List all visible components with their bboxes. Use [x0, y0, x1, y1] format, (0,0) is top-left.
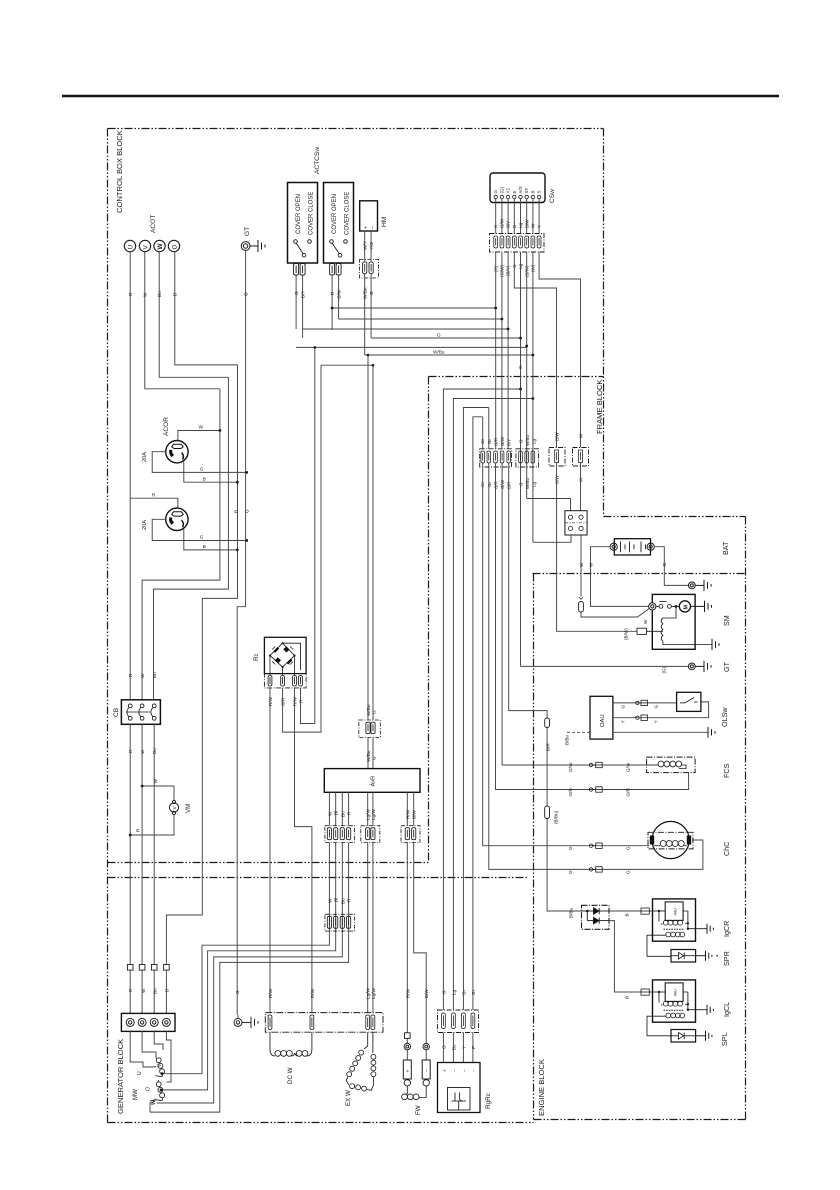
AVR connector top: [359, 720, 381, 738]
wire CSw W jog: [539, 252, 580, 448]
receptacle junction dots: [219, 429, 249, 551]
svg-text:W: W: [153, 779, 158, 784]
connector W 1pin: [573, 448, 589, 467]
DC W winding: [270, 1032, 312, 1056]
frame block border right: [745, 517, 747, 1120]
svg-text:B/W: B/W: [555, 475, 560, 484]
AVR group3 labels: [405, 809, 416, 819]
svg-text:G: G: [200, 535, 204, 540]
svg-text:R/W: R/W: [405, 809, 410, 819]
svg-text:W: W: [327, 811, 332, 816]
svg-text:Y: Y: [537, 225, 542, 228]
wire CSw B/Y down: [507, 252, 509, 329]
svg-text:B: B: [530, 190, 535, 193]
connector B labels lower: [518, 478, 536, 489]
EX W coil bottom: [350, 1084, 355, 1089]
svg-text:G: G: [441, 990, 446, 994]
EX W feed right: [372, 1032, 374, 1053]
wire R from ACOT U: [129, 252, 131, 700]
svg-text:R/W: R/W: [405, 988, 410, 998]
svg-text:G: G: [235, 990, 240, 994]
svg-text:COVER OPEN: COVER OPEN: [296, 194, 302, 234]
wire G from GT: [237, 251, 245, 1016]
receptacle wires: [130, 431, 247, 550]
wire ACTCSw1 G: [295, 275, 297, 329]
svg-text:W: W: [157, 243, 164, 250]
svg-text:G: G: [200, 467, 204, 472]
svg-text:Bl: Bl: [334, 811, 339, 815]
svg-text:G: G: [518, 482, 523, 486]
svg-text:IgCL: IgCL: [722, 1002, 731, 1017]
OAU ground: [708, 727, 715, 738]
bundle labels upper: [441, 989, 476, 995]
svg-text:B/Bu: B/Bu: [569, 907, 574, 918]
generator block border bottom: [108, 1122, 534, 1124]
svg-text:COVER CLOSE: COVER CLOSE: [309, 192, 315, 235]
IgCR internal wiring: [647, 911, 707, 956]
EX W coil right vertical: [371, 1054, 376, 1059]
SPR gap symbol: [671, 952, 696, 959]
OLSw box: [677, 692, 701, 711]
AVR bottom wires group2: [368, 792, 373, 1012]
svg-text:IMU: IMU: [673, 908, 678, 915]
fuse B/Bu: [545, 806, 550, 819]
Rc box: [264, 637, 306, 673]
wire G to GT: [521, 665, 689, 667]
control box block border right lower: [428, 377, 430, 863]
RgRc connector lower labels: [441, 1044, 476, 1050]
Rc bridge: [270, 643, 301, 670]
CSw wire color labels: [493, 218, 541, 228]
svg-text:COVER OPEN: COVER OPEN: [332, 194, 338, 234]
ChC terminals: [650, 836, 654, 845]
svg-text:Gr: Gr: [480, 438, 485, 444]
svg-text:G: G: [568, 870, 573, 874]
svg-text:B/W: B/W: [424, 989, 429, 998]
connector B labels upper: [518, 435, 536, 446]
AVR group2 labels: [366, 808, 377, 820]
SM ground lower: [712, 639, 719, 650]
svg-text:B: B: [624, 996, 629, 999]
svg-text:W/Bu: W/Bu: [366, 704, 371, 716]
receptacle ACOR 1: [166, 441, 188, 463]
wire B branch R2: [184, 529, 238, 550]
wire G/R riser: [283, 365, 321, 732]
svg-text:FRAME BLOCK: FRAME BLOCK: [595, 380, 604, 434]
Rc output wires: [270, 347, 321, 1012]
bullet connectors OAU G: [636, 700, 648, 705]
RgRc connector: [438, 1010, 479, 1033]
branch to bundle w4: [473, 417, 483, 1010]
CSw harness labels: [493, 263, 535, 277]
svg-text:W: W: [199, 425, 204, 430]
svg-text:Y/G: Y/G: [369, 242, 374, 250]
svg-text:IgCR: IgCR: [722, 921, 731, 937]
MW wires from strip: [130, 1031, 171, 1082]
FW coil: [402, 1086, 427, 1100]
branch to bundle w1: [443, 389, 520, 1010]
VM junction dots: [129, 785, 144, 837]
wire CSw B/W down: [532, 252, 534, 543]
svg-text:B: B: [164, 989, 169, 992]
bus wire y347: [296, 346, 527, 348]
svg-text:V: V: [142, 245, 149, 250]
svg-text:W: W: [143, 292, 148, 297]
wire ACTCSw2 R: [331, 275, 333, 330]
wire R feed R2: [130, 498, 178, 508]
switch 2 pins: [330, 264, 342, 276]
svg-text:W: W: [643, 619, 648, 624]
bullet connectors G/W: [589, 762, 602, 767]
svg-text:SPL: SPL: [720, 1032, 729, 1046]
svg-text:G: G: [437, 333, 441, 338]
svg-text:Lg/W: Lg/W: [371, 987, 376, 999]
OAU wires: [566, 702, 709, 732]
svg-text:Gr: Gr: [461, 989, 466, 995]
branch to bundle w3: [463, 408, 488, 1011]
IgCL primary coil: [663, 1001, 682, 1006]
wire W/Bu to AVR connector: [367, 355, 369, 720]
wire R/W via jog: [295, 688, 312, 1013]
CSw lead wires: [496, 199, 539, 234]
svg-text:G/R: G/R: [493, 437, 498, 446]
svg-text:W: W: [140, 673, 145, 678]
svg-text:Gr: Gr: [487, 438, 492, 444]
strip feed wires: [130, 970, 166, 1013]
wire Lg jog up: [533, 535, 571, 542]
svg-text:G: G: [493, 190, 498, 194]
FW circles top: [404, 1043, 429, 1049]
wire R/W to DC W: [269, 688, 271, 1013]
wire B from ACOT O: [175, 252, 238, 365]
wire G loop R1: [152, 452, 247, 473]
IgCL ground: [707, 1005, 713, 1015]
svg-text:OAU: OAU: [600, 714, 606, 727]
switch 1 pins: [294, 264, 306, 276]
wire B/R to connector A: [507, 329, 509, 449]
SM contacts: [656, 602, 679, 609]
AVR group1 labels upper: [327, 811, 351, 817]
wire G/R crossing: [496, 463, 689, 790]
switch box 1: [288, 183, 318, 264]
square terminals: [127, 965, 169, 971]
SM motor circle: [679, 601, 690, 612]
hour meter HM box: [360, 201, 378, 231]
wire HM W/Bu down: [364, 274, 366, 356]
battery body: [614, 539, 650, 555]
FCS box: [647, 757, 696, 773]
svg-text:AvR: AvR: [371, 776, 377, 787]
svg-text:HM: HM: [381, 217, 388, 227]
svg-text:RgRc: RgRc: [485, 1092, 492, 1109]
svg-text:G: G: [294, 291, 299, 295]
bus wire y329: [303, 328, 509, 330]
SM ground upper: [691, 601, 712, 612]
generator harness labels: [235, 987, 429, 999]
svg-text:+: +: [442, 1069, 447, 1072]
SM terminal: [649, 603, 656, 610]
RgRc capacitor symbol: [452, 1093, 467, 1111]
terminal strip box: [121, 1013, 175, 1031]
svg-text:S: S: [537, 190, 542, 193]
svg-text:G: G: [245, 509, 250, 513]
IgCR unit box: [665, 902, 683, 921]
SPL ground: [696, 1031, 712, 1041]
svg-text:G: G: [625, 846, 630, 850]
SM solenoid: [661, 606, 712, 644]
AVR connector g4: [401, 826, 420, 843]
harness labels col1 lower: [128, 988, 169, 994]
wire ACTCSw1 B/Y: [302, 275, 304, 338]
wire R to connector A: [495, 308, 497, 449]
EX W coil left diagonal: [359, 1050, 364, 1055]
wire B receptacle branch: [166, 365, 237, 965]
IgCL core: [664, 1009, 684, 1011]
svg-text:B/W: B/W: [555, 432, 560, 441]
svg-text:SM: SM: [722, 615, 731, 626]
svg-text:G: G: [371, 710, 376, 714]
fuse B/R: [545, 718, 550, 728]
svg-text:R/W: R/W: [268, 988, 273, 998]
FW brush -: [422, 1060, 430, 1079]
bullet connectors OAU Y: [636, 715, 648, 720]
svg-text:Bu: Bu: [152, 988, 157, 994]
connector A labels lower: [480, 479, 511, 489]
control box block border bottom: [108, 862, 429, 864]
VM wires: [130, 786, 174, 835]
svg-text:ENGINE BLOCK: ENGINE BLOCK: [537, 1059, 546, 1116]
CB pole 2: [140, 704, 144, 708]
AVR top wires: [368, 738, 373, 769]
svg-text:GENERATOR BLOCK: GENERATOR BLOCK: [116, 1039, 125, 1114]
svg-text:FCS: FCS: [722, 763, 731, 778]
IgCR secondary coil: [666, 932, 685, 937]
GT terminal: [688, 661, 711, 672]
CSw pins: [494, 195, 541, 198]
generator block border top: [108, 877, 530, 879]
svg-text:Bu: Bu: [340, 811, 345, 817]
svg-text:E: E: [512, 190, 517, 193]
svg-text:G/R: G/R: [568, 788, 573, 797]
IgCR primary coil: [663, 920, 682, 925]
svg-text:ACOT: ACOT: [150, 215, 157, 233]
wire B/Bu to diodes: [547, 819, 581, 912]
SPR ground: [696, 951, 712, 961]
svg-text:−: −: [452, 1069, 457, 1072]
svg-text:GT: GT: [244, 227, 251, 236]
svg-text:20A: 20A: [142, 520, 148, 530]
AVR connector g3: [361, 826, 380, 843]
bus wire y308: [332, 252, 496, 308]
wire Gr2 to connector A: [488, 408, 490, 450]
GT ground symbol: [257, 240, 259, 252]
GT terminal circle: [241, 242, 250, 251]
IgCL unit box: [665, 983, 683, 1002]
bullet connectors G/R: [589, 787, 602, 792]
wire G crossing 2: [489, 463, 703, 870]
wire Gr1 to connector A: [482, 417, 484, 449]
AVR connector g1: [325, 826, 355, 843]
strip pins: [268, 1015, 375, 1030]
wire CSw G/W down: [501, 252, 503, 319]
wire W to connector4: [580, 463, 582, 511]
FW brush +: [403, 1060, 411, 1079]
wire W branch R1: [178, 431, 220, 441]
svg-text:U: U: [137, 1071, 143, 1075]
CB box: [121, 700, 160, 725]
svg-text:Bl: Bl: [334, 898, 339, 902]
CB bar: [126, 711, 150, 713]
svg-text:G/W: G/W: [568, 762, 573, 772]
connector4 4pin: [565, 511, 587, 535]
frame block border step horizontal: [604, 516, 746, 518]
svg-text:B: B: [662, 563, 667, 566]
svg-text:W: W: [589, 562, 594, 567]
wire W from connector4 to SM: [581, 535, 652, 617]
svg-text:B: B: [233, 510, 238, 513]
svg-text:G: G: [243, 292, 248, 296]
Rc diodes: [273, 646, 292, 664]
svg-text:Bu: Bu: [157, 291, 162, 297]
diode box: [582, 905, 610, 929]
svg-text:Lg: Lg: [518, 222, 523, 228]
svg-text:Y2: Y2: [506, 187, 511, 193]
svg-text:G/W: G/W: [500, 436, 505, 446]
svg-text:Lg: Lg: [532, 481, 537, 487]
svg-text:B/W: B/W: [524, 219, 529, 228]
svg-text:20A: 20A: [142, 452, 148, 462]
ChC circle: [652, 821, 689, 858]
battery wires: [591, 547, 689, 607]
IgCR core: [664, 928, 684, 930]
wire G/W crossing: [502, 463, 646, 766]
diode junction dot: [586, 910, 589, 913]
svg-text:Rc: Rc: [253, 653, 260, 661]
HM connector: [360, 260, 379, 279]
svg-text:Bu: Bu: [152, 672, 157, 678]
svg-text:G/W: G/W: [625, 762, 630, 772]
fuse on W wire: [579, 602, 584, 613]
CSw pin labels: [493, 186, 541, 193]
AVR group1 labels mid: [327, 898, 351, 904]
svg-text:GT: GT: [722, 661, 731, 672]
svg-text:(B/W): (B/W): [623, 628, 628, 640]
RgRc feed wires: [443, 1033, 473, 1063]
svg-text:CSw: CSw: [549, 189, 556, 203]
OAU wire labels: [621, 705, 659, 724]
crossing wire labels: [568, 762, 630, 874]
svg-text:ACOR: ACOR: [163, 417, 170, 436]
svg-text:W/Bu: W/Bu: [433, 350, 445, 355]
svg-text:B/R: B/R: [545, 743, 550, 751]
Rc node pins: [269, 642, 296, 668]
svg-text:W/Bu: W/Bu: [366, 750, 371, 762]
pin to IgCL: [641, 989, 652, 995]
engine block border left: [533, 574, 535, 1120]
control box block border left: [107, 129, 109, 1123]
svg-text:Gr: Gr: [471, 989, 476, 995]
svg-text:Lg/W: Lg/W: [371, 808, 376, 820]
IgCL internal wiring: [647, 992, 707, 1036]
FW circles bottom: [404, 1080, 429, 1086]
svg-text:FW: FW: [415, 1105, 422, 1115]
SM BW pin: [637, 628, 663, 634]
wire CSw G down: [520, 252, 522, 667]
strip terminals: [126, 1018, 170, 1026]
IgCL box: [653, 980, 696, 1022]
svg-text:ChC: ChC: [722, 842, 731, 856]
VM meter: [169, 800, 178, 814]
svg-text:B: B: [624, 913, 629, 916]
svg-text:(B/Bu): (B/Bu): [554, 810, 559, 824]
svg-text:B/Y: B/Y: [506, 221, 511, 228]
svg-text:O: O: [146, 1087, 152, 1091]
Rc bridge leads: [270, 656, 295, 676]
wire HM G down: [370, 274, 372, 339]
connector BW 1pin: [549, 448, 565, 467]
wire B branch R1: [184, 462, 238, 483]
svg-text:Lg: Lg: [451, 989, 456, 995]
svg-text:MW: MW: [132, 1089, 139, 1100]
svg-text:Bs: Bs: [451, 1044, 456, 1050]
svg-text:G/W: G/W: [500, 218, 505, 228]
IgCR box: [653, 899, 696, 941]
svg-text:A/S: A/S: [518, 186, 523, 193]
SM box: [652, 594, 695, 649]
wire G crossing 1: [483, 463, 649, 846]
svg-text:−: −: [424, 1069, 430, 1072]
receptacle ACOR 2: [166, 508, 188, 530]
OAU box: [590, 696, 613, 739]
battery terminals: [610, 543, 654, 550]
OLSw contact: [680, 698, 698, 703]
svg-text:P: P: [471, 1046, 476, 1049]
svg-text:B: B: [173, 293, 178, 296]
svg-text:CONTROL BOX BLOCK: CONTROL BOX BLOCK: [115, 130, 124, 213]
terminal O: [168, 240, 179, 251]
SM junction dot: [675, 605, 678, 608]
wire CSw Lg down: [526, 252, 528, 499]
battery cells: [621, 542, 646, 553]
svg-text:B/Y: B/Y: [300, 290, 305, 298]
svg-text:G: G: [371, 756, 376, 760]
GT ground lead: [250, 245, 258, 247]
G wire into terminal: [237, 1015, 239, 1018]
svg-text:ST: ST: [524, 187, 529, 193]
engine block border top: [533, 573, 746, 575]
RgRc box: [438, 1063, 481, 1113]
FW wires: [407, 1038, 426, 1079]
bus wire y365: [321, 364, 373, 366]
svg-text:G: G: [621, 705, 626, 709]
svg-text:DC W: DC W: [287, 1067, 294, 1084]
wire CSw Y jog: [514, 252, 556, 448]
AVR bottom wires group1: [150, 792, 349, 1112]
svg-text:G: G: [568, 846, 573, 850]
wire B/R riser: [509, 463, 547, 719]
wire R riser: [301, 347, 315, 723]
SPR box: [671, 950, 696, 963]
svg-text:COVER CLOSE: COVER CLOSE: [345, 192, 351, 235]
svg-text:B/Bu: B/Bu: [565, 734, 570, 745]
svg-text:W/Bu: W/Bu: [525, 435, 530, 446]
svg-text:B: B: [203, 476, 206, 481]
wire HM W/Y: [364, 231, 366, 262]
svg-text:B/W: B/W: [412, 810, 417, 819]
svg-text:(G): (G): [499, 187, 504, 194]
wire W receptacle branch: [142, 389, 220, 700]
svg-text:U: U: [127, 245, 134, 250]
